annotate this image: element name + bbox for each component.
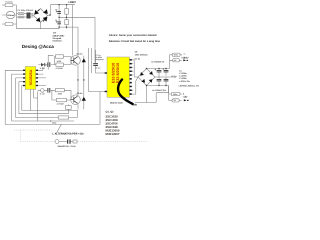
svg-text:L ALTERNATIVA PER +12v: L ALTERNATIVA PER +12v	[53, 133, 85, 136]
svg-text:10turns each: 10turns each	[110, 102, 124, 105]
svg-text:100R: 100R	[57, 60, 62, 63]
svg-text:C5: C5	[55, 9, 57, 12]
svg-text:2x 1u: 2x 1u	[95, 66, 101, 69]
svg-text:4.7KOM: 4.7KOM	[56, 67, 63, 70]
svg-text:polyprop: polyprop	[95, 58, 104, 61]
svg-text:Attention: Circuit Not tested: Attention: Circuit Not tested for a long…	[109, 40, 161, 43]
svg-text:C 2200u: C 2200u	[179, 77, 187, 80]
svg-text:E33 8/20/10: E33 8/20/10	[116, 63, 120, 83]
svg-text:E33 8/20/10: E33 8/20/10	[112, 63, 116, 83]
svg-text:C 2200u: C 2200u	[179, 72, 187, 75]
svg-text:GND: GND	[132, 104, 138, 107]
svg-text:LM7805 LM2812 L 5%: LM7805 LM2812 L 5%	[179, 85, 200, 88]
svg-text:100R: 100R	[58, 93, 63, 96]
svg-text:Tr 1:8: Tr 1:8	[40, 67, 45, 70]
svg-text:Q1, Q2: Q1, Q2	[106, 110, 115, 113]
svg-text:Advice: Some your connection l: Advice: Some your connection labeled	[109, 34, 157, 37]
svg-text:+160V: +160V	[68, 1, 76, 4]
svg-text:3x 1N5822 5A: 3x 1N5822 5A	[151, 61, 164, 64]
svg-text:4x 2200uF 25v: 4x 2200uF 25v	[152, 89, 166, 92]
svg-text:4.7KOM: 4.7KOM	[57, 103, 64, 106]
svg-text:Fuse 4A: Fuse 4A	[6, 1, 14, 4]
svg-text:C 2200u: C 2200u	[179, 75, 187, 78]
svg-text:SG3525A: SG3525A	[29, 69, 33, 85]
svg-text:C1 100n 275VAC: C1 100n 275VAC	[18, 9, 34, 12]
svg-text:Q1 BU: Q1 BU	[77, 53, 83, 56]
svg-text:-12v: -12v	[183, 96, 188, 99]
svg-text:0 0v: 0 0v	[171, 76, 177, 79]
svg-text:resistors: resistors	[53, 39, 63, 42]
svg-text:Dx 3x: Dx 3x	[135, 57, 141, 60]
svg-text:+ 4700u 25v: + 4700u 25v	[179, 80, 191, 83]
svg-text:Q2 BU: Q2 BU	[77, 92, 83, 95]
svg-text:100n 250VAC: 100n 250VAC	[135, 53, 149, 56]
svg-text:110vac: 110vac	[7, 14, 15, 17]
svg-text:Tr 1:8: Tr 1:8	[40, 92, 45, 95]
svg-text:MJE13007: MJE13007	[106, 132, 120, 136]
svg-text:+16Ov: +16Ov	[181, 57, 189, 60]
svg-text:Desing @Acca: Desing @Acca	[22, 44, 54, 49]
svg-text:1N5408 3A L 27uH: 1N5408 3A L 27uH	[58, 145, 76, 148]
svg-text:+2: +2	[183, 53, 185, 56]
